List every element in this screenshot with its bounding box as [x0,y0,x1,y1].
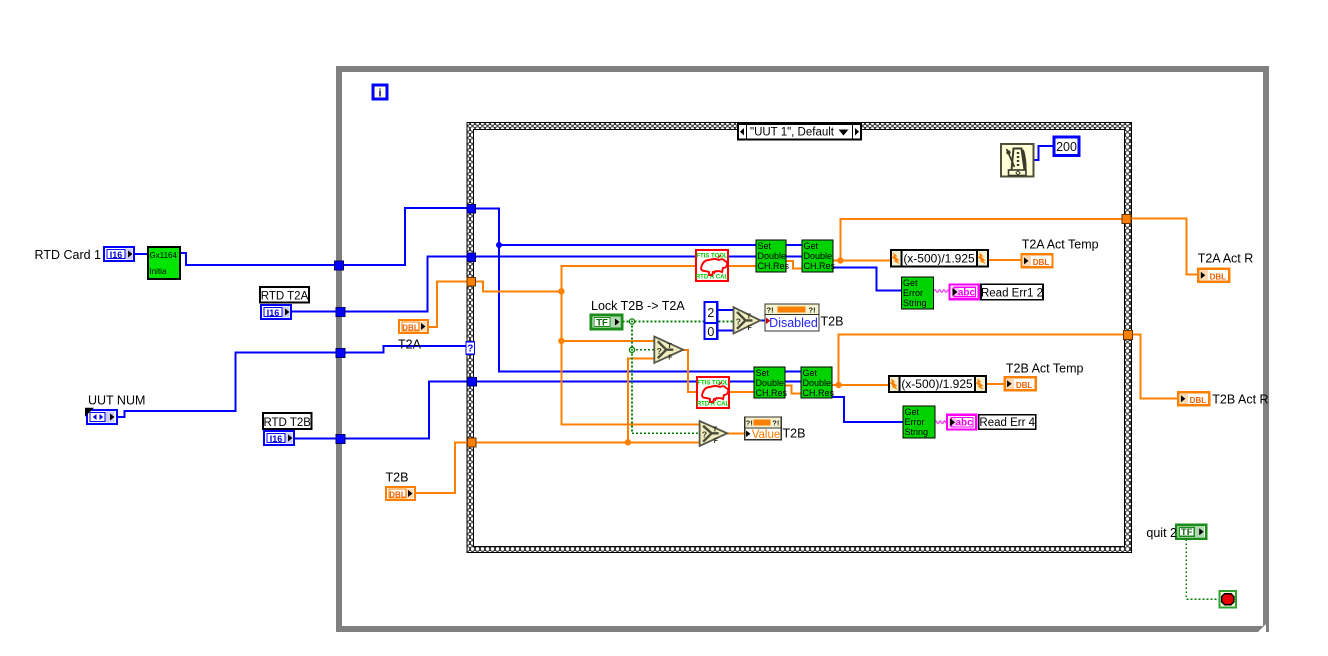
svg-text:quit 2: quit 2 [1146,526,1177,540]
svg-text:Set: Set [756,368,770,378]
svg-text:(x-500)/1.925: (x-500)/1.925 [903,252,975,266]
svg-text:T2A Act R: T2A Act R [1198,252,1254,266]
svg-text:T2B: T2B [821,315,844,329]
svg-text:CH.Res: CH.Res [803,388,835,398]
svg-text:DBL: DBL [389,491,406,500]
svg-text:Get: Get [903,278,918,288]
svg-text:Read Err1 2: Read Err1 2 [981,287,1043,299]
svg-text:Set: Set [758,241,772,251]
svg-text:T2A: T2A [398,338,422,352]
svg-text:?!: ?! [767,305,774,314]
svg-text:CH.Res: CH.Res [756,388,788,398]
svg-text:Get: Get [905,407,920,417]
svg-text:?!: ?! [746,419,753,428]
svg-text:"UUT 1", Default: "UUT 1", Default [750,127,835,139]
svg-text:T2B: T2B [386,471,409,485]
svg-text:i: i [378,88,381,100]
svg-text:DBL: DBL [1033,258,1050,267]
svg-text:0: 0 [707,325,714,339]
svg-text:Lock T2B -> T2A: Lock T2B -> T2A [591,299,685,313]
svg-text:?: ? [467,343,473,354]
svg-text:T2B Act Temp: T2B Act Temp [1006,362,1084,376]
svg-text:T: T [667,341,672,350]
svg-text:DBL: DBL [1210,272,1227,281]
svg-text:Double: Double [756,378,785,388]
svg-text:String: String [905,427,929,437]
svg-text:?: ? [702,429,707,439]
svg-text:Double: Double [803,378,832,388]
svg-text:T2B: T2B [783,427,806,441]
svg-text:CH.Res: CH.Res [804,261,836,271]
svg-text:?!: ?! [772,419,779,428]
svg-text:Get: Get [804,241,819,251]
svg-text:F: F [748,325,753,332]
svg-text:UUT NUM: UUT NUM [88,394,145,408]
svg-text:RTD Card 1: RTD Card 1 [35,248,102,262]
svg-text:CH.Res: CH.Res [758,261,790,271]
svg-text:Error: Error [903,288,923,298]
svg-text:T: T [747,312,752,321]
svg-text:Error: Error [905,417,925,427]
svg-text:?: ? [736,317,741,327]
svg-text:TF: TF [596,318,608,329]
svg-text:(x-500)/1.925: (x-500)/1.925 [901,377,973,391]
svg-text:I16: I16 [270,434,283,444]
svg-text:DBL: DBL [1190,396,1207,405]
svg-text:TF: TF [1181,527,1193,538]
svg-text:Initia: Initia [150,267,167,276]
svg-text:F: F [668,354,673,361]
svg-text:I16: I16 [110,250,123,260]
svg-text:?!: ?! [809,305,816,314]
svg-text:T: T [713,424,718,433]
svg-text:T2A Act Temp: T2A Act Temp [1022,238,1099,252]
svg-text:abc: abc [955,418,973,429]
svg-text:RTD T2A: RTD T2A [261,290,309,302]
svg-text:String: String [903,298,927,308]
svg-text:T2B Act R: T2B Act R [1212,393,1268,407]
svg-text:DBL: DBL [402,324,419,333]
svg-text:DBL: DBL [1016,381,1033,390]
svg-text:?: ? [657,346,662,356]
svg-text:abc: abc [958,287,976,298]
svg-text:Double: Double [804,251,833,261]
svg-text:2: 2 [707,306,714,320]
svg-text:Double: Double [758,251,787,261]
svg-text:F: F [714,438,719,445]
svg-text:RTD T2B: RTD T2B [263,417,311,429]
svg-text:Disabled: Disabled [769,316,818,330]
svg-text:Read Err 4: Read Err 4 [979,417,1035,429]
svg-text:Gx1164: Gx1164 [150,251,178,260]
svg-text:Get: Get [803,368,818,378]
svg-text:I16: I16 [267,308,280,318]
svg-text:Value: Value [752,429,781,441]
svg-text:200: 200 [1056,140,1077,154]
